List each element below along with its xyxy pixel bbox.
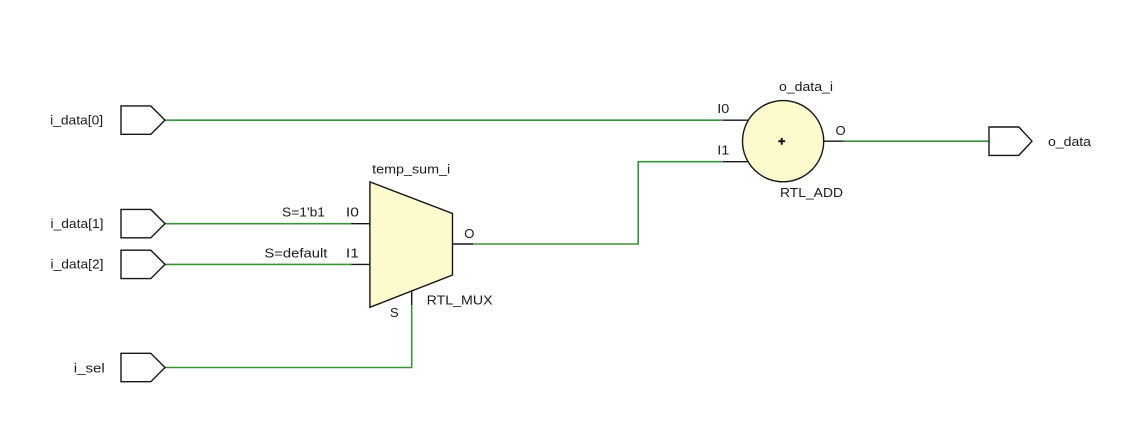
- svg-text:i_data[0]: i_data[0]: [50, 113, 103, 128]
- svg-text:RTL_MUX: RTL_MUX: [427, 292, 493, 307]
- mux pin O stub: [453, 243, 474, 245]
- svg-text:temp_sum_i: temp_sum_i: [372, 162, 450, 177]
- input port i_data[0]: [121, 106, 165, 134]
- svg-text:S: S: [390, 305, 399, 320]
- wire o_data net (ADD O to port): [844, 140, 990, 142]
- svg-text:RTL_ADD: RTL_ADD: [780, 185, 843, 200]
- svg-text:o_data_i: o_data_i: [779, 79, 833, 94]
- input port i_data[2]: [121, 250, 165, 278]
- svg-text:S=default: S=default: [264, 245, 327, 260]
- adder pin I1 stub: [723, 161, 748, 163]
- svg-text:I0: I0: [717, 101, 729, 116]
- wire i_data[2] net: [165, 263, 351, 265]
- svg-text:I1: I1: [717, 143, 729, 158]
- mux pin I1 stub: [351, 263, 370, 265]
- mux temp_sum_i body: [370, 182, 453, 307]
- adder o_data_i body: [743, 101, 824, 182]
- svg-text:o_data: o_data: [1048, 134, 1092, 149]
- svg-text:i_data[1]: i_data[1]: [51, 216, 104, 231]
- input port i_sel: [121, 353, 165, 381]
- svg-text:I1: I1: [346, 245, 359, 260]
- wire i_sel net: [165, 305, 412, 367]
- adder pin O stub: [824, 140, 844, 142]
- svg-text:S=1'b1: S=1'b1: [282, 205, 325, 220]
- wire i_data[0] net: [165, 119, 723, 121]
- svg-text:O: O: [835, 123, 845, 138]
- svg-text:i_data[2]: i_data[2]: [51, 256, 104, 271]
- input port i_data[1]: [121, 209, 165, 237]
- svg-text:I0: I0: [346, 205, 359, 220]
- wire i_data[1] net: [165, 223, 351, 225]
- adder plus sign: [778, 138, 785, 145]
- svg-text:O: O: [464, 226, 474, 241]
- mux pin I0 stub: [351, 223, 370, 225]
- svg-text:i_sel: i_sel: [74, 360, 105, 375]
- output port o_data: [989, 127, 1032, 155]
- wire temp_sum net (MUX O to ADD I1): [473, 162, 723, 244]
- mux pin S stub: [411, 290, 413, 305]
- adder pin I0 stub: [723, 119, 748, 121]
